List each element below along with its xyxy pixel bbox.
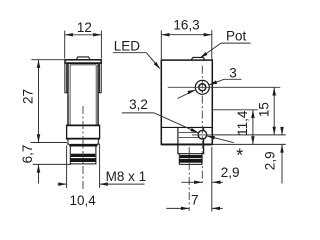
left view: thread band 1 bbox=[71, 154, 95, 157]
right view: connector thread body bbox=[179, 154, 202, 165]
left view: collar bbox=[67, 125, 100, 139]
left view: top bump bbox=[76, 57, 90, 60]
svg-text:27: 27 bbox=[20, 89, 35, 104]
left view: thread band 2 bbox=[71, 159, 96, 162]
right view: connector centerline bbox=[188, 147, 190, 211]
dimension 7 bbox=[166, 147, 223, 211]
svg-text:LED: LED bbox=[114, 38, 141, 53]
dimension 3,2 with leaders bbox=[129, 97, 148, 112]
svg-text:*: * bbox=[236, 146, 243, 166]
svg-text:3,2: 3,2 bbox=[129, 97, 148, 112]
left view: body inner lines bbox=[70, 65, 96, 125]
svg-text:M8 x 1: M8 x 1 bbox=[106, 169, 147, 184]
svg-text:6,7: 6,7 bbox=[20, 145, 35, 164]
svg-text:2,9: 2,9 bbox=[262, 151, 277, 170]
dimension 12 bbox=[65, 31, 102, 59]
svg-text:11,4: 11,4 bbox=[235, 110, 250, 136]
right view: pot hole horizontal centerline bbox=[168, 86, 212, 88]
right view: body outline bbox=[161, 60, 212, 144]
right view: hole vertical centerline bbox=[201, 66, 203, 186]
right view: mounting hole horizontal centerline bbox=[192, 134, 212, 136]
dimension 3 with leaders bbox=[229, 66, 237, 81]
label M8 x 1 bbox=[106, 169, 147, 184]
dimension 15 bbox=[212, 87, 286, 135]
svg-text:3: 3 bbox=[229, 66, 237, 81]
right view: connector thread band 1 bbox=[180, 155, 201, 157]
svg-text:Pot: Pot bbox=[226, 29, 247, 44]
dimension 11,4 bbox=[213, 110, 286, 145]
dimension 6,7 bbox=[33, 164, 71, 183]
right view: internal separation line bbox=[161, 126, 212, 128]
right view: connector collar bbox=[178, 144, 204, 153]
right view: connector thread band 2 bbox=[180, 159, 202, 162]
right view: mounting hole bore lines bbox=[179, 132, 199, 137]
svg-text:7: 7 bbox=[191, 192, 199, 207]
dimension 16,3 bbox=[161, 30, 212, 59]
left view: neck below collar bbox=[68, 139, 98, 145]
label LED with leader bbox=[114, 38, 141, 53]
right view: connector block side edges bbox=[178, 128, 204, 145]
left view: body outline bbox=[68, 63, 98, 125]
right view: mounting hole (3,2) circle bbox=[198, 130, 207, 139]
left view: M8 thread body bbox=[70, 147, 96, 164]
svg-text:12: 12 bbox=[77, 20, 92, 35]
left view: left mounting tab bbox=[65, 63, 67, 92]
left view: right mounting tab bbox=[99, 63, 101, 92]
right view: pot hole inner circle bbox=[199, 84, 206, 91]
svg-text:10,4: 10,4 bbox=[69, 193, 96, 208]
svg-text:2,9: 2,9 bbox=[221, 165, 240, 180]
footnote asterisk bbox=[236, 146, 243, 166]
label Pot with leader bbox=[226, 29, 247, 44]
left view: top cap bbox=[65, 60, 101, 63]
svg-text:16,3: 16,3 bbox=[173, 18, 199, 33]
dimension 10,4 bbox=[58, 144, 145, 189]
svg-text:15: 15 bbox=[257, 102, 272, 117]
right view: pot notch on top bbox=[191, 57, 205, 60]
dimension 2,9 right side bbox=[280, 127, 284, 184]
right view: pot hole (3) outer circle bbox=[195, 80, 209, 94]
left view: M8 shoulder bbox=[68, 143, 98, 146]
dimension 2,9 bottom bbox=[181, 181, 223, 185]
dimension 27 bbox=[30, 60, 67, 143]
left view: vertical centerline bbox=[82, 106, 84, 190]
